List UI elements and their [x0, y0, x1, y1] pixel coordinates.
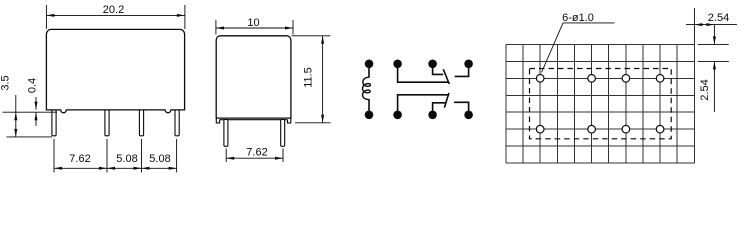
contact dot bottom middle	[428, 111, 437, 120]
contact dot top left	[393, 60, 402, 69]
pin 3 front view	[139, 110, 143, 136]
dimension 7.62 side arrow right	[275, 157, 283, 160]
bottom extension line pin4	[176, 139, 178, 173]
dimension 2.54 horizontal line	[686, 24, 737, 26]
dimension 20.2 arrow right	[177, 14, 185, 17]
chain arrow at pin4	[169, 167, 177, 170]
pin right side view	[281, 120, 285, 147]
dimension 20.2 extension line left	[45, 5, 47, 29]
dimension 0.4 arrow down	[35, 102, 38, 110]
chain arrows at pin2	[99, 167, 115, 170]
hole top row 3	[622, 75, 630, 83]
top NO contact hook	[455, 64, 469, 77]
dimension 3.5 arrow down	[14, 129, 17, 137]
bottom extension line pin3	[141, 139, 143, 173]
dimension 0.4 arrow up	[35, 112, 38, 120]
svg-text:0.4: 0.4	[26, 78, 38, 93]
dimension 11.5 arrow up	[321, 36, 324, 44]
dimension 20.2 extension line right	[184, 5, 186, 29]
dimension 11.5 line	[322, 36, 324, 123]
contact dot bottom left	[393, 111, 402, 120]
top pole blade	[443, 69, 449, 84]
contact dot top middle	[428, 60, 437, 69]
top pole common wire	[398, 64, 449, 82]
bottom extension line pin2	[106, 139, 108, 173]
bottom NC contact hook	[433, 103, 447, 115]
dimension 11.5 top extension line	[292, 35, 331, 37]
dimension 2.54 vertical extension line top	[698, 43, 729, 45]
pin 4 front view	[175, 110, 179, 136]
dimension 7.62 side line	[226, 157, 283, 159]
right foot side view	[288, 118, 291, 123]
svg-text:20.2: 20.2	[103, 4, 124, 16]
pin 1 front view	[52, 110, 56, 136]
coil terminal dot top	[365, 60, 374, 69]
dimension 3.5 arrow up	[14, 112, 17, 120]
svg-text:7.62: 7.62	[246, 147, 267, 159]
dimension 2.54 vertical lower line	[713, 61, 715, 112]
dimension 10 extension line left	[215, 20, 217, 35]
dimension 10 extension line right	[292, 20, 294, 35]
dimension 11.5 arrow down	[321, 115, 324, 123]
left foot side view	[216, 118, 219, 123]
contact dot top right	[464, 60, 473, 69]
chained dimension line 7.62 5.08 5.08	[54, 167, 177, 169]
coil terminal dot bottom	[365, 111, 374, 120]
svg-text:6-ø1.0: 6-ø1.0	[562, 12, 594, 24]
dimension 20.2 arrow left	[46, 14, 54, 17]
relay body front view with bottom notches	[46, 29, 184, 112]
pin left side view	[224, 120, 228, 147]
hole top row 1	[536, 75, 544, 83]
dimension 2.54 horizontal arrow left	[694, 23, 702, 26]
svg-text:5.08: 5.08	[116, 153, 137, 165]
svg-text:7.62: 7.62	[69, 153, 90, 165]
svg-text:11.5: 11.5	[303, 67, 315, 88]
relay body side view	[216, 36, 291, 118]
pcb grid vertical lines	[506, 44, 694, 163]
dimension 2.54 horizontal extension up from grid edge	[693, 8, 695, 44]
hole top row 2	[588, 75, 596, 83]
dimension 2.54 vertical arrow down	[713, 36, 716, 44]
dimension 7.62 side arrow left	[226, 157, 234, 160]
dimension 11.5 bottom extension line	[295, 122, 331, 124]
bottom pole common wire	[398, 95, 449, 115]
dimension 7.62 side extension left	[225, 149, 227, 163]
bottom pole blade	[444, 93, 449, 108]
chain arrow at pin1	[54, 167, 62, 170]
hole bottom row 1	[536, 125, 544, 133]
top NC contact hook	[433, 64, 444, 75]
coil winding	[363, 77, 371, 99]
base plate line side view	[220, 119, 288, 121]
pin 2 front view	[105, 110, 109, 136]
chain arrows at pin3	[134, 167, 150, 170]
dimension 10 line	[216, 27, 293, 29]
extension line standoff bottom	[3, 111, 58, 113]
bottom NO contact hook	[454, 102, 469, 115]
svg-text:2.54: 2.54	[708, 12, 729, 24]
bottom extension line pin1	[53, 139, 55, 173]
svg-text:3.5: 3.5	[0, 75, 12, 90]
dimension 2.54 vertical extension line bottom	[698, 60, 729, 62]
leader line for hole callout	[542, 23, 615, 73]
svg-text:2.54: 2.54	[699, 79, 711, 100]
dimension 0.4 lower line	[35, 112, 37, 126]
coil wire bottom	[368, 99, 370, 115]
hole bottom row 2	[588, 125, 596, 133]
dimension 2.54 horizontal arrow right	[706, 23, 714, 26]
dimension 3.5 line	[15, 95, 17, 137]
dashed outline rectangle	[530, 69, 672, 139]
dimension 10 arrow right	[285, 27, 293, 30]
dimension 10 arrow left	[216, 27, 224, 30]
extension line pin tip	[6, 136, 52, 138]
dimension 2.54 vertical right ext segment	[713, 25, 715, 45]
hole bottom row 3	[622, 125, 630, 133]
hole bottom row 4	[656, 125, 664, 133]
svg-text:10: 10	[247, 17, 259, 29]
dimension 0.4 upper line	[35, 97, 37, 110]
contact dot bottom right	[464, 111, 473, 120]
pcb grid horizontal lines	[506, 44, 694, 163]
hole top row 4	[656, 75, 664, 83]
dimension 7.62 side extension right	[282, 149, 284, 163]
dimension 20.2 line	[46, 14, 185, 16]
dimension 2.54 vertical arrow up	[713, 61, 716, 69]
coil wire top	[368, 64, 370, 78]
svg-text:5.08: 5.08	[149, 153, 170, 165]
